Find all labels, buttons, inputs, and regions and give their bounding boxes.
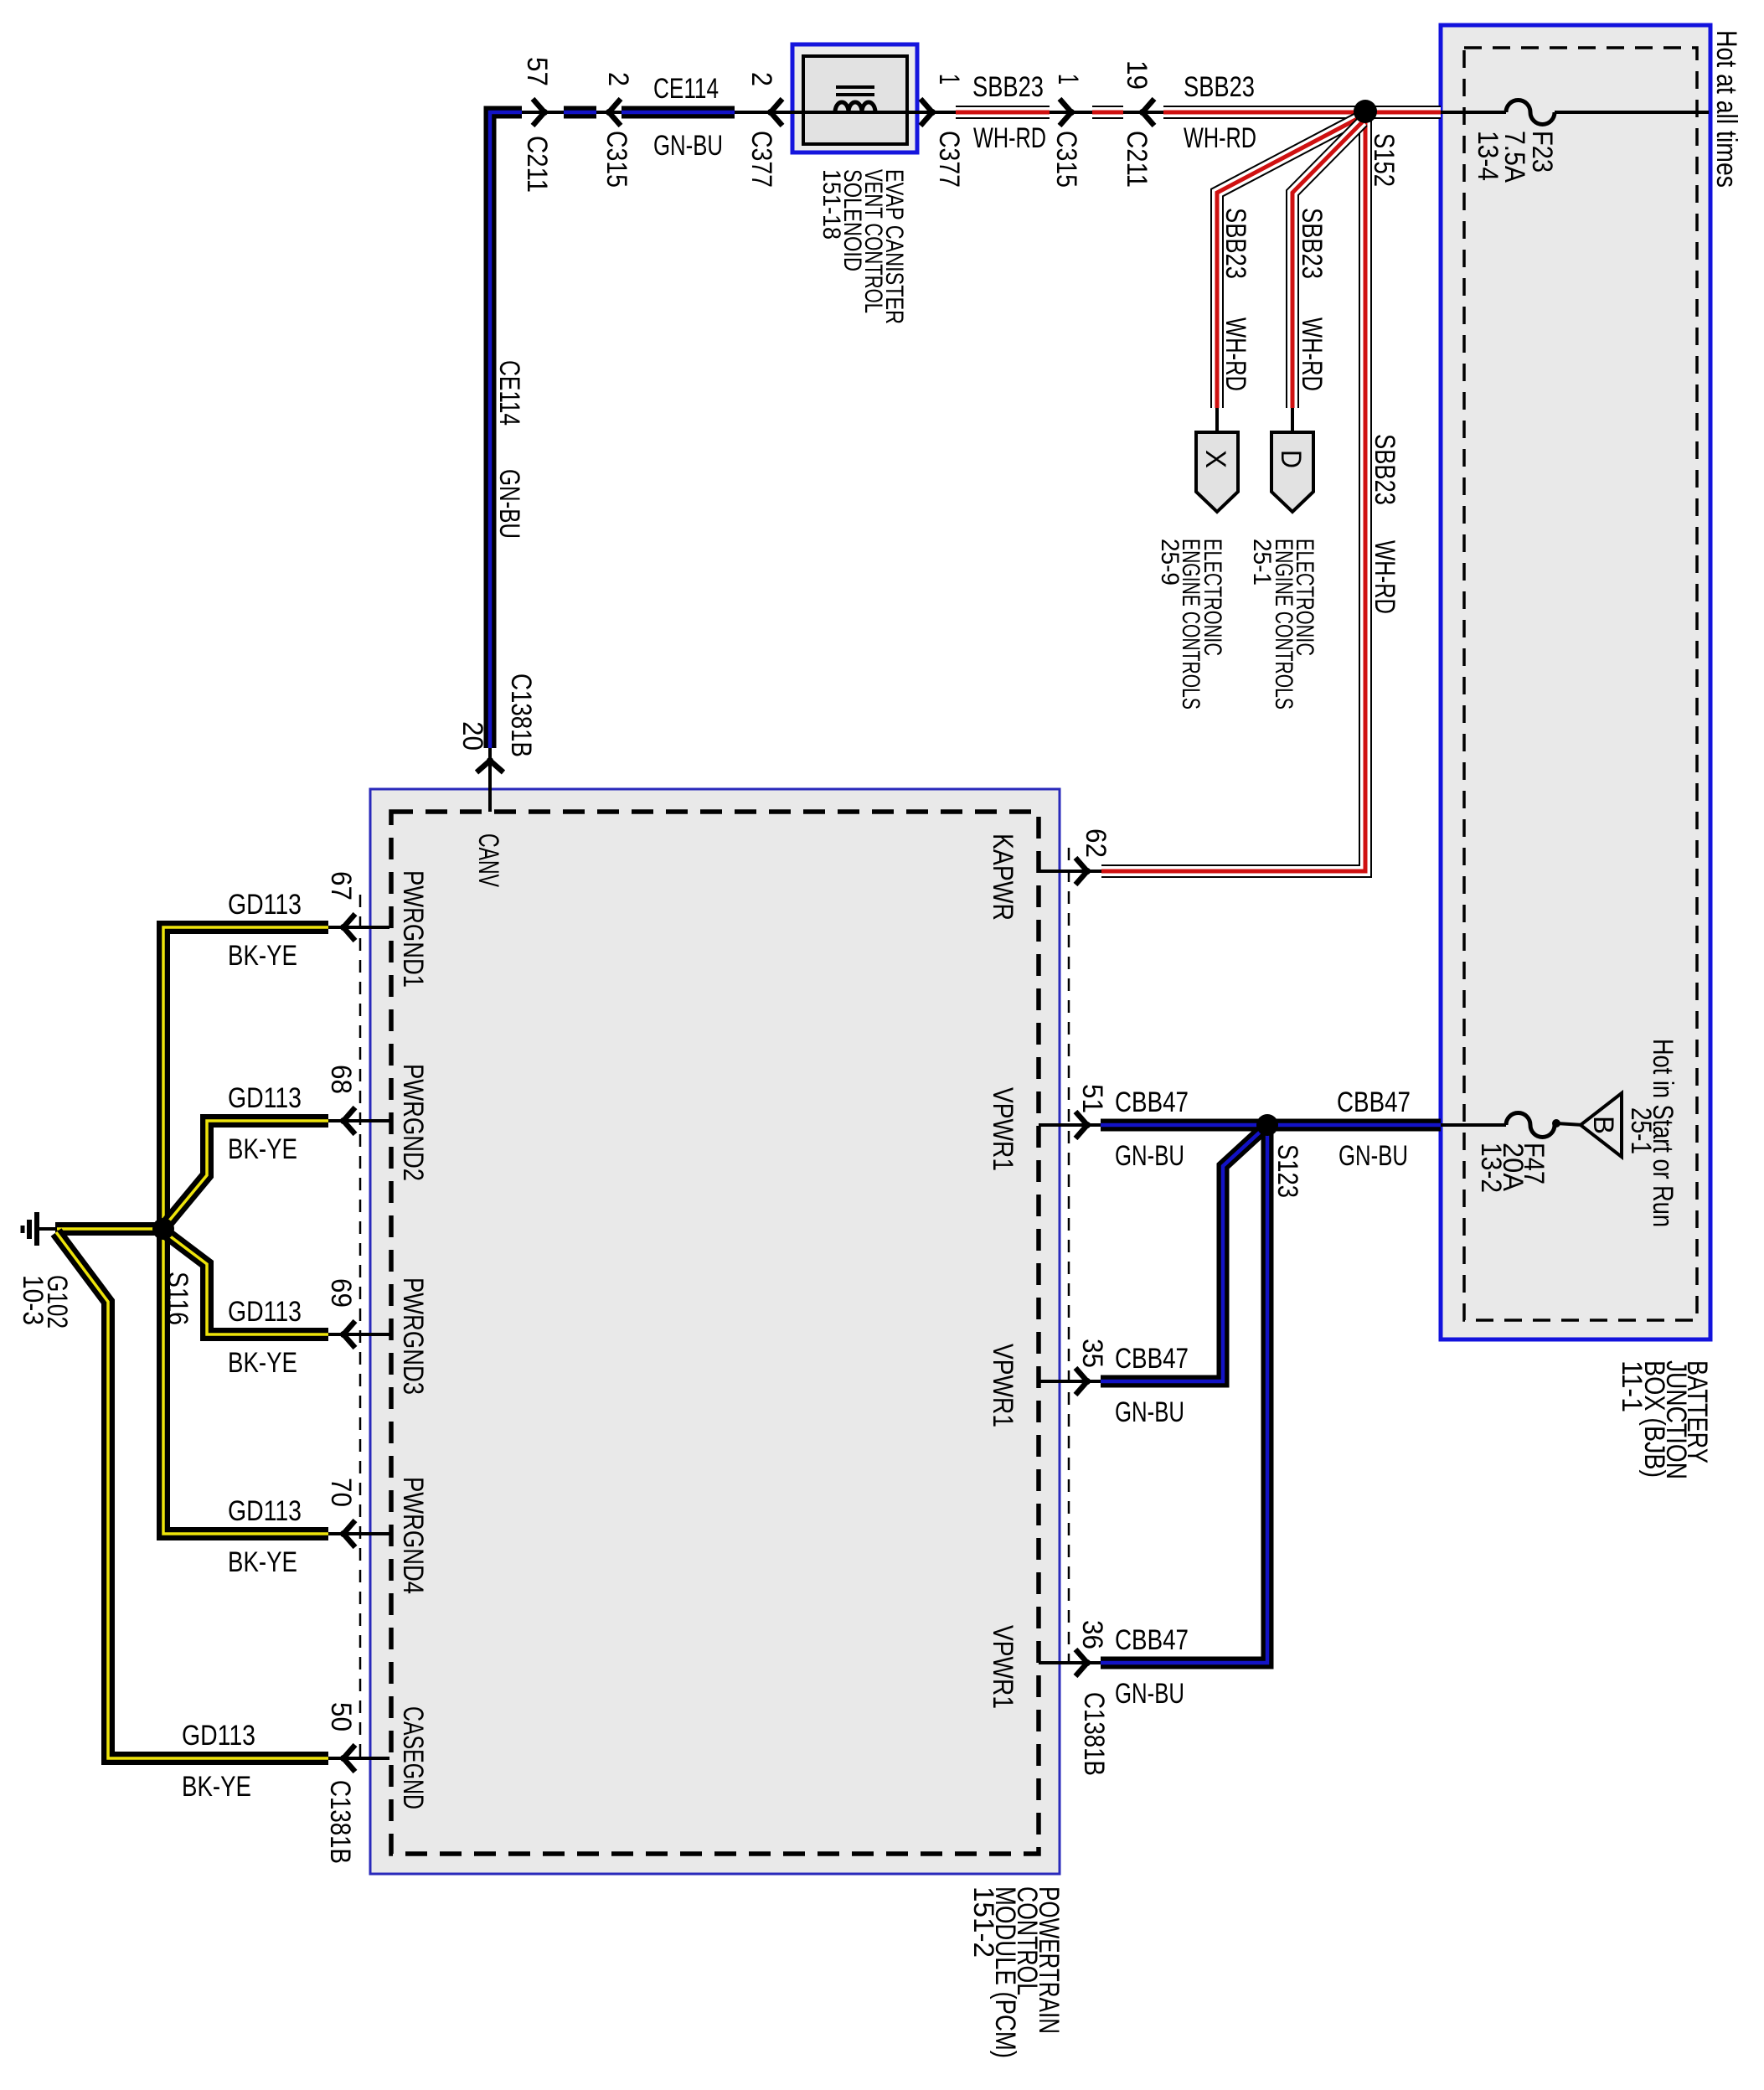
- svg-text:VPWR1: VPWR1: [987, 1087, 1019, 1171]
- svg-text:VPWR1: VPWR1: [987, 1625, 1019, 1709]
- svg-text:BK-YE: BK-YE: [228, 1546, 297, 1578]
- thin lead pin 70: [328, 1532, 389, 1535]
- pin 70 arrow: [343, 1520, 355, 1547]
- PCM connector dashed line C1381B left: [359, 895, 362, 1759]
- PCM inner dashed border: [391, 812, 1039, 1854]
- fuse F23: [1506, 101, 1555, 125]
- svg-text:151-2: 151-2: [967, 1886, 999, 1958]
- svg-text:BK-YE: BK-YE: [182, 1771, 251, 1803]
- svg-text:GD113: GD113: [228, 1296, 302, 1328]
- connector C211 arrow (pin 57): [533, 99, 544, 126]
- svg-text:69: 69: [325, 1278, 357, 1308]
- svg-text:CBB47: CBB47: [1115, 1343, 1189, 1375]
- powertrain control module PCM outline: [370, 789, 1060, 1874]
- wire inside BJB to fuse F47: [1441, 1123, 1506, 1127]
- wire through solenoid: [803, 111, 956, 114]
- PCM connector dashed line C1381B right: [1068, 848, 1070, 1664]
- fuse F47: [1506, 1113, 1555, 1138]
- svg-text:WH-RD: WH-RD: [973, 122, 1046, 154]
- svg-text:51: 51: [1076, 1084, 1108, 1113]
- svg-text:C1381B: C1381B: [324, 1780, 356, 1864]
- pin 62 arrow: [1075, 858, 1087, 885]
- svg-text:1: 1: [1052, 74, 1084, 85]
- ground symbol G102: [23, 1212, 57, 1246]
- svg-text:1: 1: [933, 74, 965, 85]
- svg-text:2: 2: [602, 72, 634, 86]
- wire thin at connector C211 pin 19: [1123, 111, 1163, 114]
- branch S123 to VPWR1 pin 35: [1101, 1128, 1264, 1381]
- wire GD113 BK-YE pins 67/70 U-run through S116: [163, 927, 328, 1534]
- thin lead VPWR1 pin 36: [1039, 1661, 1101, 1664]
- thin lead pin 68: [328, 1119, 389, 1122]
- solenoid core lines: [836, 85, 874, 89]
- svg-text:13-2: 13-2: [1475, 1143, 1507, 1193]
- svg-text:25-1: 25-1: [1625, 1107, 1657, 1154]
- svg-text:C1381B: C1381B: [1078, 1692, 1110, 1776]
- svg-text:11-1: 11-1: [1616, 1360, 1648, 1412]
- svg-text:GN-BU: GN-BU: [1115, 1396, 1184, 1428]
- svg-text:BK-YE: BK-YE: [228, 940, 297, 972]
- svg-text:70: 70: [325, 1478, 357, 1507]
- svg-text:67: 67: [325, 871, 357, 901]
- wire thin at connector C315 pin 2: [596, 111, 622, 114]
- svg-text:10-3: 10-3: [17, 1275, 49, 1325]
- svg-text:PWRGND2: PWRGND2: [397, 1064, 429, 1181]
- svg-text:PWRGND4: PWRGND4: [397, 1477, 429, 1594]
- svg-text:SBB23: SBB23: [1184, 71, 1255, 103]
- svg-text:CE114: CE114: [653, 73, 719, 105]
- pin 20 arrow: [477, 761, 503, 772]
- thin lead VPWR1 pin 35: [1039, 1380, 1101, 1383]
- svg-text:20: 20: [456, 721, 488, 751]
- wire CBB47 GN-BU pin51 through S123 to BJB: [1101, 1119, 1441, 1132]
- lead into D connector: [1291, 408, 1294, 436]
- BJB inner dashed border: [1464, 48, 1697, 1320]
- BJB label BATTERY JUNCTION BOX (BJB) 11-1: [1616, 1360, 1713, 1479]
- splice S123: [1256, 1114, 1278, 1136]
- svg-text:2: 2: [745, 72, 777, 86]
- wire inside BJB to fuse F23: [1441, 111, 1506, 114]
- svg-text:GD113: GD113: [228, 1082, 302, 1114]
- pin 68 arrow: [343, 1107, 355, 1134]
- thin lead pin 50: [328, 1757, 389, 1760]
- wire SBB23 WH-RD vertical + horizontal to KAPWR pin 62: [1101, 112, 1365, 871]
- pin 69 arrow: [343, 1321, 355, 1348]
- wire thin at connector C315 pin 1: [1050, 111, 1092, 114]
- svg-text:CBB47: CBB47: [1337, 1086, 1411, 1118]
- off-page connector D: [1271, 432, 1313, 512]
- svg-text:SBB23: SBB23: [1220, 208, 1251, 279]
- wire thin at connector C211 pin 57: [522, 111, 564, 114]
- wire from fuse F23 to right: [1555, 111, 1709, 114]
- svg-text:GD113: GD113: [182, 1720, 255, 1752]
- vertical wire S123 down to pin 36 row: [1101, 1125, 1267, 1663]
- svg-text:BK-YE: BK-YE: [228, 1133, 297, 1165]
- svg-text:D: D: [1275, 450, 1307, 468]
- wire CE114 GN-BU corner + vertical to CANV: [490, 112, 522, 748]
- solenoid coil: [835, 102, 875, 112]
- svg-text:C315: C315: [1050, 131, 1082, 188]
- svg-text:CE114: CE114: [493, 360, 525, 426]
- connector C377 arrow (pin 2): [771, 99, 782, 126]
- svg-text:SBB23: SBB23: [1369, 434, 1400, 505]
- wire SBB23 WH-RD segment 2 to S152: [1163, 106, 1441, 119]
- svg-text:PWRGND1: PWRGND1: [397, 870, 429, 988]
- svg-text:62: 62: [1080, 828, 1112, 858]
- svg-text:CANV: CANV: [472, 833, 504, 887]
- svg-text:B: B: [1587, 1116, 1619, 1134]
- svg-text:C377: C377: [933, 131, 965, 188]
- svg-text:WH-RD: WH-RD: [1220, 317, 1251, 391]
- svg-text:151-18: 151-18: [818, 169, 845, 240]
- wire GD113 BK-YE CASEGND branch to ground: [56, 1232, 328, 1758]
- wire thin at connector C377 pin 2: [735, 111, 803, 114]
- svg-text:WH-RD: WH-RD: [1369, 540, 1400, 614]
- battery junction box BJB outline: [1441, 25, 1710, 1339]
- svg-text:68: 68: [325, 1065, 357, 1094]
- wire CE114 GN-BU dash segment: [564, 106, 596, 119]
- svg-text:KAPWR: KAPWR: [987, 833, 1019, 921]
- svg-text:GN-BU: GN-BU: [653, 130, 723, 162]
- fuse F23 label F23 7.5A 13-4: [1472, 131, 1558, 183]
- pin 67 arrow: [343, 914, 355, 941]
- thin lead KAPWR pin 62: [1039, 870, 1101, 873]
- svg-text:S116: S116: [162, 1272, 193, 1325]
- svg-text:50: 50: [325, 1702, 357, 1731]
- wire SBB23 WH-RD segment 1: [956, 106, 1050, 119]
- svg-text:C315: C315: [601, 131, 632, 188]
- pin 35 arrow: [1075, 1368, 1087, 1395]
- solenoid label EVAP CANISTER VENT CONTROL SOLENOID 151-18: [818, 169, 908, 324]
- connector C211 arrow (pin 19): [1142, 99, 1154, 126]
- svg-text:13-4: 13-4: [1472, 131, 1504, 181]
- splice S116: [152, 1218, 174, 1240]
- thin lead pin 69: [328, 1333, 389, 1336]
- svg-text:WH-RD: WH-RD: [1184, 122, 1256, 154]
- svg-text:57: 57: [521, 57, 553, 86]
- svg-text:GN-BU: GN-BU: [1115, 1678, 1184, 1710]
- D destination label ELECTRONIC ENGINE CONTROLS 25-1: [1248, 539, 1318, 710]
- off-page connector X: [1196, 432, 1238, 512]
- PCM label POWERTRAIN CONTROL MODULE (PCM) 151-2: [967, 1886, 1065, 2058]
- X destination label ELECTRONIC ENGINE CONTROLS 25-9: [1156, 539, 1226, 710]
- svg-text:X: X: [1199, 450, 1231, 468]
- lead into X connector: [1215, 408, 1219, 436]
- svg-text:SBB23: SBB23: [972, 71, 1044, 103]
- EVAP canister vent control solenoid box: [792, 44, 917, 152]
- thin lead VPWR1 pin 51: [1039, 1123, 1101, 1127]
- splice S152: [1354, 100, 1377, 123]
- svg-text:S152: S152: [1368, 133, 1400, 187]
- connector C315 arrow (pin 2): [609, 99, 621, 126]
- svg-text:GD113: GD113: [228, 1495, 302, 1527]
- wire fuse F47 to triangle: [1556, 1123, 1583, 1125]
- triangle symbol B: [1581, 1093, 1622, 1157]
- pin 51 arrow: [1075, 1112, 1087, 1138]
- svg-text:PWRGND3: PWRGND3: [397, 1277, 429, 1395]
- wire SBB23 WH-RD short segment: [1092, 106, 1123, 119]
- svg-text:GD113: GD113: [228, 889, 302, 921]
- svg-text:WH-RD: WH-RD: [1296, 317, 1328, 391]
- wire CE114 GN-BU main segment: [622, 106, 735, 119]
- svg-text:36: 36: [1076, 1620, 1108, 1649]
- pin 50 arrow: [343, 1745, 355, 1772]
- svg-text:BK-YE: BK-YE: [228, 1347, 297, 1379]
- thin lead into CANV pin 20: [488, 748, 492, 812]
- svg-text:C211: C211: [521, 136, 553, 193]
- wire ground to S116: [55, 1222, 162, 1236]
- ground G102 label: [17, 1275, 73, 1329]
- pin 36 arrow: [1075, 1649, 1087, 1676]
- connector C315 arrow (pin 1): [1060, 99, 1071, 126]
- svg-text:S123: S123: [1271, 1144, 1303, 1198]
- svg-text:CBB47: CBB47: [1115, 1624, 1189, 1656]
- svg-text:25-1: 25-1: [1248, 539, 1276, 586]
- diagonal branch to D connector: [1292, 121, 1363, 408]
- svg-text:35: 35: [1076, 1339, 1108, 1368]
- wire GD113 BK-YE pin 69 branch to S116: [166, 1233, 328, 1334]
- fuse F47 label F47 20A 13-2: [1475, 1143, 1550, 1193]
- svg-text:SBB23: SBB23: [1296, 208, 1328, 279]
- svg-text:VPWR1: VPWR1: [987, 1344, 1019, 1427]
- svg-text:C377: C377: [745, 131, 777, 188]
- svg-text:CASEGND: CASEGND: [397, 1706, 429, 1809]
- svg-text:GN-BU: GN-BU: [493, 469, 525, 539]
- svg-text:GN-BU: GN-BU: [1338, 1140, 1408, 1172]
- svg-text:CBB47: CBB47: [1115, 1086, 1189, 1118]
- svg-text:19: 19: [1121, 60, 1153, 90]
- thin lead pin 67: [328, 926, 389, 929]
- net label: Hot in Start or Run 25-1: [1625, 1039, 1679, 1227]
- svg-text:Hot at all times: Hot at all times: [1710, 30, 1742, 188]
- diagonal branch to X connector: [1217, 117, 1360, 408]
- svg-text:C1381B: C1381B: [505, 673, 537, 757]
- svg-text:GN-BU: GN-BU: [1115, 1140, 1184, 1172]
- svg-text:25-9: 25-9: [1156, 539, 1184, 586]
- connector C377 arrow right (pin 1): [921, 99, 932, 126]
- svg-text:C211: C211: [1121, 131, 1153, 188]
- wire GD113 BK-YE pin 68 branch to S116: [166, 1121, 328, 1225]
